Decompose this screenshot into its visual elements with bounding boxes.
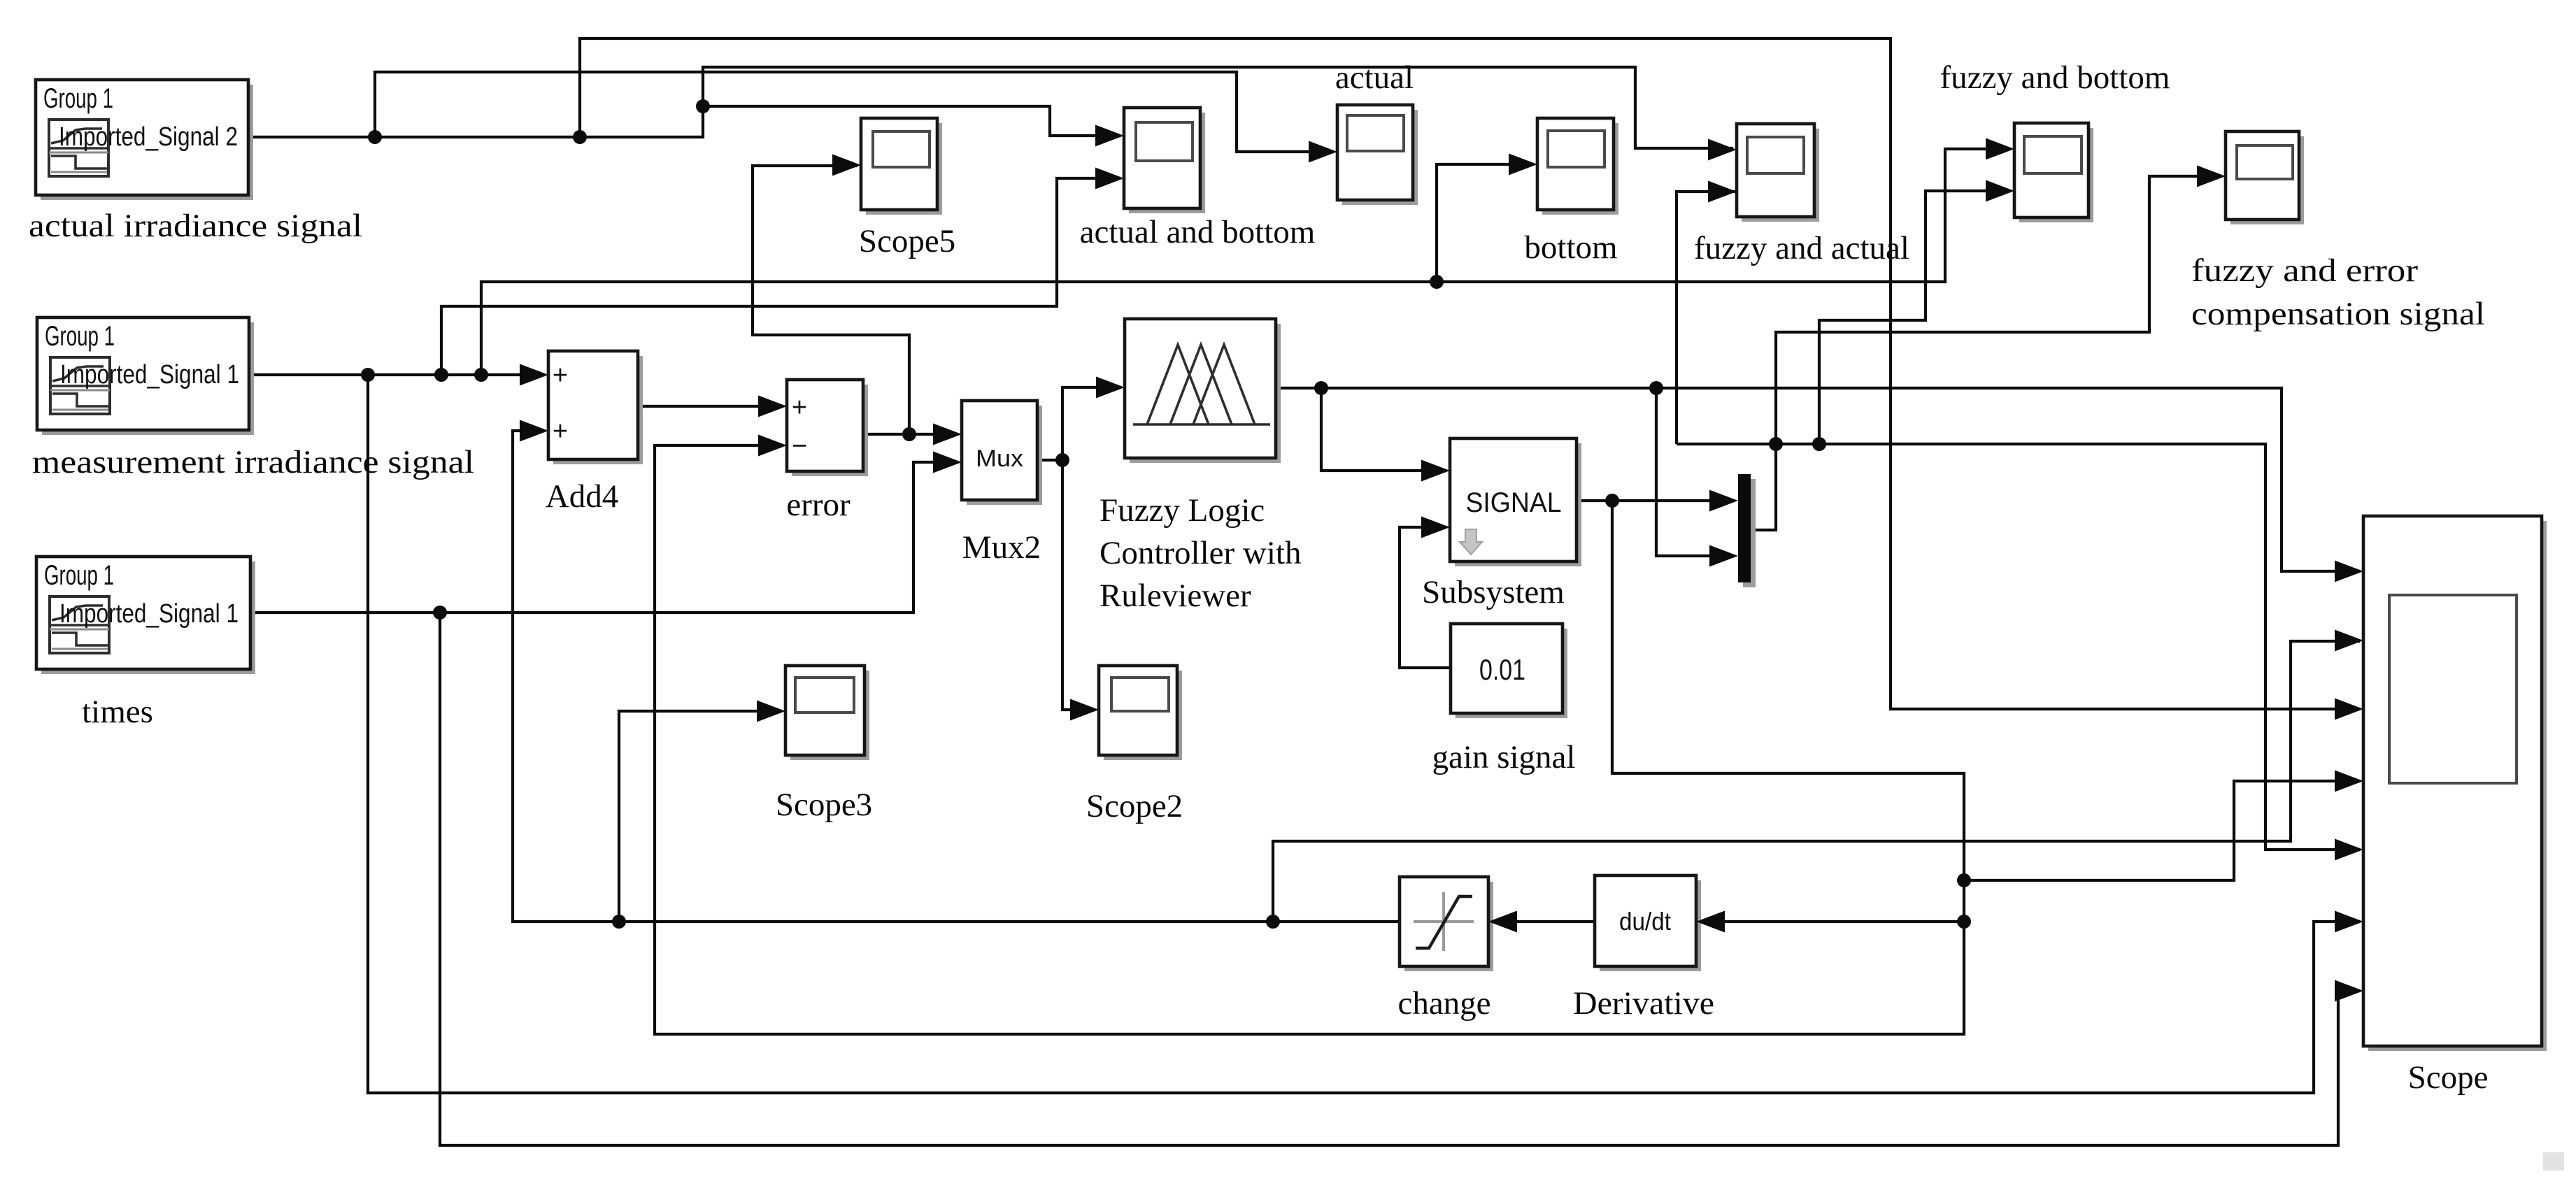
mux block Mux2 bbox=[967, 406, 1042, 505]
wire Derivative output into change input bbox=[1492, 920, 1595, 923]
scope block Scope2 bbox=[1104, 671, 1182, 760]
wire S1 actual-irradiance main: to line A and fuzzy-and-actual in1 bbox=[248, 67, 1733, 148]
svg-text:0.01: 0.01 bbox=[1479, 653, 1525, 686]
wire mux-bar branch to fuzzy-and-bottom in2 bbox=[1819, 191, 2011, 444]
wire FLC output line to Scope in1 bbox=[1276, 388, 2360, 571]
wire S1 branch line B to actual scope bbox=[375, 72, 1334, 152]
wire Subsystem output feedback: down, right, down to error minus bbox=[655, 445, 1964, 1034]
svg-text:Scope5: Scope5 bbox=[859, 223, 955, 259]
wire S1 branch to actual-and-bottom in1 bbox=[703, 106, 1120, 136]
wire Subsystem feedback branch into Derivative input bbox=[1700, 920, 1964, 923]
wire FLC branch down to Subsystem in1 bbox=[1321, 388, 1446, 471]
wire mux-bar y635 line to Scope in5 bbox=[1677, 444, 2360, 850]
svg-text:du/dt: du/dt bbox=[1619, 907, 1671, 936]
svg-text:Scope: Scope bbox=[2408, 1059, 2489, 1096]
wire mux-bar output branch to fuzzy-and-actual in2 bbox=[1677, 192, 1737, 444]
svg-text:Scope2: Scope2 bbox=[1086, 788, 1183, 824]
svg-text:Imported_Signal 2: Imported_Signal 2 bbox=[59, 122, 238, 152]
scope block Scope5 bbox=[866, 123, 942, 215]
wire times main into Mux2 in2 bbox=[250, 462, 958, 613]
svg-text:actual and bottom: actual and bottom bbox=[1080, 214, 1316, 250]
svg-text:fuzzy and bottom: fuzzy and bottom bbox=[1940, 59, 2170, 96]
svg-text:Scope3: Scope3 bbox=[776, 787, 872, 823]
source block S3 Imported_Signal 1 (times) bbox=[41, 561, 255, 674]
wire gain 0.01 into Subsystem in2 bbox=[1400, 527, 1451, 668]
wire mux-bar output to fuzzy-and-error scope bbox=[1751, 176, 2222, 530]
svg-text:actual: actual bbox=[1335, 59, 1414, 96]
wire branch from y403 line up into bottom scope bbox=[1437, 164, 1534, 282]
wire change output feedback to Add4 in2 bbox=[513, 431, 1400, 922]
junction dots bbox=[368, 130, 382, 144]
svg-text:fuzzy and error: fuzzy and error bbox=[2191, 252, 2418, 289]
svg-text:+: + bbox=[553, 417, 568, 446]
wire Add4 output to error plus bbox=[638, 405, 783, 408]
wire S1 branch line A' to Scope in3 bbox=[580, 38, 2360, 709]
sum block error bbox=[792, 385, 868, 476]
svg-text:Add4: Add4 bbox=[546, 478, 618, 515]
scope block Scope3 bbox=[790, 671, 869, 760]
svg-text:Controller with: Controller with bbox=[1100, 535, 1302, 571]
svg-text:fuzzy and actual: fuzzy and actual bbox=[1694, 230, 1909, 266]
svg-text:−: − bbox=[792, 431, 807, 461]
wire S2 branch to actual-and-bottom in2 bbox=[441, 178, 1120, 375]
source block S2 Imported_Signal 1 (measurement irradiance signal) bbox=[42, 322, 254, 435]
svg-text:Group 1: Group 1 bbox=[45, 321, 115, 352]
svg-text:Mux2: Mux2 bbox=[962, 529, 1041, 566]
scope block Scope (main) bbox=[2368, 521, 2547, 1051]
subsystem gray down-arrow icon bbox=[1460, 529, 1482, 554]
svg-text:SIGNAL: SIGNAL bbox=[1466, 487, 1562, 518]
scope block bottom bbox=[1542, 123, 1618, 215]
svg-text:gain signal: gain signal bbox=[1432, 739, 1576, 775]
svg-text:times: times bbox=[82, 694, 153, 730]
svg-text:Fuzzy Logic: Fuzzy Logic bbox=[1100, 492, 1265, 529]
wire change branch up to Scope3 bbox=[619, 711, 782, 922]
svg-text:compensation signal: compensation signal bbox=[2191, 296, 2485, 332]
source block S1 Imported_Signal 2 (actual irradiance signal) bbox=[41, 85, 253, 200]
svg-text:Group 1: Group 1 bbox=[44, 560, 114, 591]
wire Subsystem feedback branch to Scope in4 bbox=[1964, 781, 2360, 880]
subsystem block SIGNAL bbox=[1455, 443, 1581, 566]
svg-text:Mux: Mux bbox=[976, 445, 1023, 472]
arrowheads bbox=[520, 364, 548, 386]
wire Mux2 output to Fuzzy Logic Controller bbox=[1037, 387, 1121, 460]
svg-text:+: + bbox=[792, 393, 807, 422]
derivative block du/dt bbox=[1600, 880, 1701, 971]
wire S2 branch down to Scope in6 bbox=[368, 375, 2360, 1093]
svg-text:+: + bbox=[553, 361, 568, 390]
scope block fuzzy and error compensation signal bbox=[2230, 136, 2304, 224]
watermark bbox=[2543, 1152, 2564, 1171]
svg-text:bottom: bottom bbox=[1524, 229, 1617, 266]
wire error output branch up to Scope5 bbox=[753, 166, 909, 434]
scope block fuzzy and bottom bbox=[2019, 128, 2093, 222]
svg-text:error: error bbox=[786, 487, 851, 523]
wire times branch down to Scope in7 bbox=[440, 613, 2360, 1145]
svg-text:Derivative: Derivative bbox=[1573, 985, 1714, 1022]
wire S2 measurement main into Add4 in1 bbox=[250, 373, 545, 376]
svg-text:measurement irradiance signal: measurement irradiance signal bbox=[32, 444, 474, 480]
sum block Add4 bbox=[553, 356, 643, 464]
constant block 0.01 (gain signal) bbox=[1456, 629, 1567, 718]
wire change branch to Scope in2 bbox=[1273, 641, 2360, 922]
svg-text:Subsystem: Subsystem bbox=[1422, 574, 1565, 610]
scope block actual and bottom bbox=[1129, 113, 1205, 213]
wire Mux2 output branch down to Scope2 bbox=[1062, 460, 1095, 710]
svg-text:Group 1: Group 1 bbox=[43, 83, 113, 114]
scope block fuzzy and actual bbox=[1742, 129, 1819, 222]
svg-text:Ruleviewer: Ruleviewer bbox=[1100, 578, 1251, 614]
wire S2 branch to fuzzy-and-bottom in1 bbox=[481, 149, 2011, 375]
svg-text:actual irradiance signal: actual irradiance signal bbox=[29, 208, 362, 244]
wire FLC branch down to mux-bar in2 bbox=[1656, 388, 1735, 556]
scope block actual bbox=[1342, 110, 1418, 205]
svg-text:Imported_Signal 1: Imported_Signal 1 bbox=[60, 360, 239, 389]
wire error output to Mux2 in1 bbox=[863, 433, 958, 436]
wire Subsystem output to mux-bar in1 bbox=[1577, 499, 1735, 502]
mux bar (vector concatenate) bbox=[1743, 479, 1756, 587]
svg-text:change: change bbox=[1397, 985, 1490, 1022]
saturation block change bbox=[1404, 882, 1493, 971]
svg-text:Imported_Signal 1: Imported_Signal 1 bbox=[59, 599, 239, 629]
Fuzzy Logic Controller with Ruleviewer block bbox=[1130, 324, 1281, 463]
